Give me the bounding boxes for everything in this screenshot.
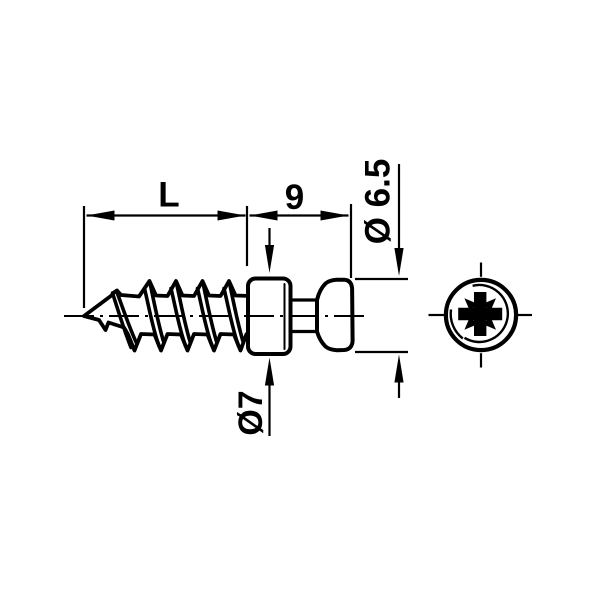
svg-text:L: L — [158, 176, 179, 215]
svg-text:Ø 6.5: Ø 6.5 — [359, 159, 398, 245]
svg-text:Ø7: Ø7 — [232, 390, 270, 435]
svg-text:9: 9 — [285, 178, 304, 217]
